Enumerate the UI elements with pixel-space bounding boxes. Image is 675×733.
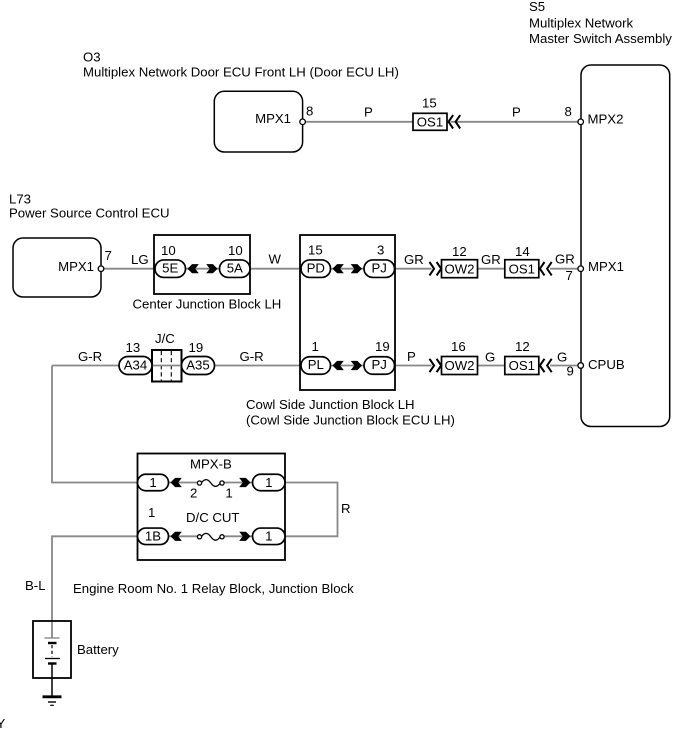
svg-text:CPUB: CPUB	[588, 357, 625, 372]
svg-text:P: P	[512, 105, 521, 120]
svg-text:OW2: OW2	[444, 261, 474, 276]
svg-text:G-R: G-R	[240, 349, 264, 364]
svg-text:G: G	[557, 349, 567, 364]
svg-text:R: R	[341, 501, 351, 516]
svg-text:2: 2	[190, 486, 197, 501]
svg-text:B-L: B-L	[25, 578, 46, 593]
svg-text:OS1: OS1	[509, 358, 535, 373]
svg-text:OS1: OS1	[417, 115, 443, 130]
svg-text:15: 15	[422, 96, 437, 111]
svg-text:GR: GR	[404, 252, 424, 267]
svg-text:PL: PL	[308, 357, 324, 372]
svg-text:12: 12	[515, 339, 530, 354]
svg-text:Center Junction Block LH: Center Junction Block LH	[133, 296, 282, 311]
svg-text:Multiplex Network: Multiplex Network	[529, 15, 633, 30]
svg-text:5E: 5E	[162, 260, 178, 275]
svg-text:12: 12	[452, 244, 467, 259]
svg-text:PJ: PJ	[372, 357, 387, 372]
svg-text:13: 13	[126, 340, 141, 355]
svg-text:8: 8	[306, 104, 313, 119]
svg-text:7: 7	[105, 248, 112, 263]
svg-text:10: 10	[161, 243, 176, 258]
svg-text:MPX1: MPX1	[255, 111, 291, 126]
svg-text:1: 1	[225, 486, 232, 501]
svg-text:19: 19	[189, 340, 204, 355]
svg-text:J/C: J/C	[155, 331, 175, 346]
svg-text:OS1: OS1	[509, 261, 535, 276]
svg-text:L73: L73	[9, 192, 31, 207]
svg-text:MPX1: MPX1	[588, 259, 624, 274]
svg-text:15: 15	[308, 243, 323, 258]
svg-text:1: 1	[148, 505, 155, 520]
svg-text:Y: Y	[0, 716, 6, 728]
svg-text:10: 10	[228, 243, 243, 258]
svg-text:MPX2: MPX2	[588, 112, 624, 127]
svg-text:MPX-B: MPX-B	[190, 457, 232, 472]
svg-text:Power Source Control ECU: Power Source Control ECU	[9, 206, 170, 221]
svg-text:1: 1	[265, 475, 272, 490]
svg-text:PD: PD	[307, 260, 325, 275]
svg-text:3: 3	[377, 243, 384, 258]
svg-text:Battery: Battery	[77, 642, 119, 657]
svg-text:PJ: PJ	[372, 260, 387, 275]
svg-text:1B: 1B	[145, 529, 161, 544]
svg-text:P: P	[364, 105, 373, 120]
svg-text:Engine Room No. 1 Relay Block,: Engine Room No. 1 Relay Block, Junction …	[73, 581, 354, 596]
svg-text:S5: S5	[529, 0, 545, 14]
svg-text:(Cowl Side Junction Block ECU: (Cowl Side Junction Block ECU LH)	[246, 413, 455, 428]
svg-text:GR: GR	[555, 252, 575, 267]
svg-text:LG: LG	[131, 252, 149, 267]
svg-text:Master Switch Assembly: Master Switch Assembly	[529, 31, 672, 46]
svg-text:Cowl Side Junction Block LH: Cowl Side Junction Block LH	[246, 397, 415, 412]
svg-text:O3: O3	[83, 49, 101, 64]
svg-text:1: 1	[312, 339, 319, 354]
svg-text:16: 16	[451, 339, 466, 354]
svg-text:8: 8	[565, 104, 572, 119]
svg-text:P: P	[407, 349, 416, 364]
svg-text:1: 1	[265, 529, 272, 544]
svg-text:G-R: G-R	[78, 349, 102, 364]
svg-text:Multiplex Network Door ECU Fro: Multiplex Network Door ECU Front LH (Doo…	[83, 64, 399, 79]
svg-text:GR: GR	[481, 252, 501, 267]
svg-text:9: 9	[567, 364, 574, 379]
svg-text:W: W	[269, 252, 282, 267]
svg-text:1: 1	[149, 475, 156, 490]
svg-text:7: 7	[566, 268, 573, 283]
svg-text:A35: A35	[186, 358, 209, 373]
svg-text:OW2: OW2	[444, 358, 474, 373]
svg-text:A34: A34	[124, 358, 147, 373]
svg-text:MPX1: MPX1	[58, 259, 94, 274]
svg-text:19: 19	[375, 339, 390, 354]
svg-text:5A: 5A	[227, 260, 243, 275]
svg-text:14: 14	[515, 244, 530, 259]
svg-text:G: G	[485, 349, 495, 364]
svg-text:D/C CUT: D/C CUT	[186, 510, 239, 525]
